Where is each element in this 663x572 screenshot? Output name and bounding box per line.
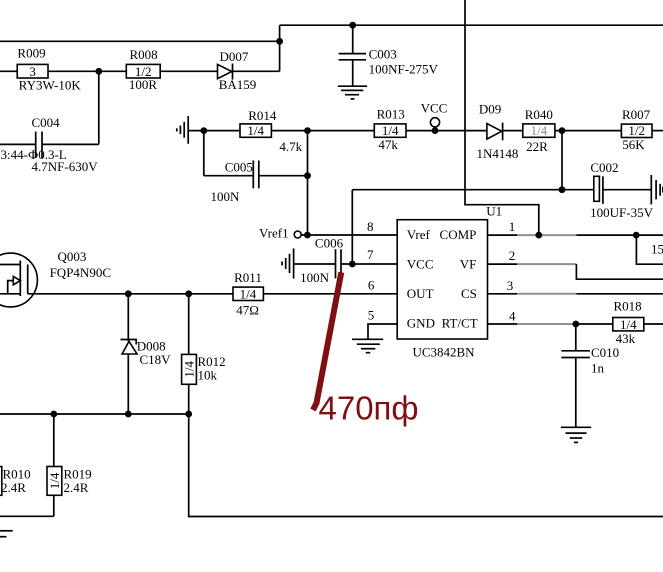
ground left of C006 (rotated) bbox=[282, 248, 294, 278]
svg-text:1n: 1n bbox=[591, 360, 605, 375]
power VCC bbox=[421, 100, 448, 127]
ground left of R014 (rotated) bbox=[177, 116, 188, 144]
node junction R014/C005 bbox=[200, 127, 207, 134]
svg-text:R014: R014 bbox=[248, 108, 277, 123]
svg-text:Vref: Vref bbox=[407, 227, 431, 242]
wire pin 3 CS bbox=[488, 293, 518, 295]
wire R014 to junction bbox=[271, 130, 374, 132]
node junction COMP feed bbox=[535, 232, 542, 239]
svg-text:GND: GND bbox=[407, 316, 435, 331]
capacitor C003 bbox=[339, 25, 439, 86]
svg-text:BA159: BA159 bbox=[219, 77, 257, 92]
node junction top rail bbox=[276, 38, 283, 45]
wire source/sense bottom row bbox=[0, 413, 189, 415]
svg-text:D007: D007 bbox=[220, 49, 249, 64]
svg-text:1/4: 1/4 bbox=[531, 123, 548, 138]
ground right of C002 (rotated) bbox=[651, 175, 663, 204]
resistor R009 bbox=[17, 46, 81, 93]
node junction VCC filter bbox=[559, 186, 566, 193]
component box 15 (cut at edge) bbox=[636, 235, 663, 264]
svg-text:R009: R009 bbox=[17, 46, 45, 61]
node junction C003 top bbox=[349, 22, 356, 29]
svg-text:1/4: 1/4 bbox=[620, 317, 637, 332]
svg-text:1/4: 1/4 bbox=[247, 123, 264, 138]
wire vertical from top rail to D007 cathode bbox=[279, 25, 281, 71]
svg-text:7: 7 bbox=[367, 247, 374, 262]
resistor R012 bbox=[182, 294, 226, 414]
zener diode D008 bbox=[121, 294, 172, 414]
svg-text:100N: 100N bbox=[300, 270, 330, 285]
svg-text:VCC: VCC bbox=[407, 257, 434, 272]
op-amp U1 UC3842BN IC body bbox=[397, 204, 502, 360]
svg-text:1/4: 1/4 bbox=[182, 361, 197, 378]
svg-text:2: 2 bbox=[509, 248, 516, 263]
node junction R012 bbox=[185, 290, 192, 297]
svg-text:8: 8 bbox=[367, 219, 374, 234]
svg-text:4.7k: 4.7k bbox=[279, 139, 302, 154]
svg-text:56K: 56K bbox=[622, 137, 645, 152]
svg-text:47Ω: 47Ω bbox=[236, 302, 259, 317]
node junction R040/C002 bbox=[559, 127, 566, 134]
wire R007 to edge bbox=[652, 130, 663, 132]
wire COMP feed vertical bbox=[465, 0, 539, 235]
svg-text:CS: CS bbox=[461, 286, 477, 301]
capacitor C006 bbox=[294, 235, 398, 285]
svg-text:5: 5 bbox=[368, 308, 375, 323]
transistor Q003 bbox=[0, 249, 111, 307]
svg-text:10k: 10k bbox=[198, 367, 218, 382]
resistor R018 bbox=[613, 299, 644, 347]
wire junction down to VCC filter row bbox=[561, 131, 563, 190]
svg-text:43k: 43k bbox=[616, 331, 636, 346]
resistor R011 bbox=[233, 270, 263, 318]
wire bottom return path bbox=[189, 414, 663, 517]
resistor R019 bbox=[47, 414, 92, 516]
svg-text:C002: C002 bbox=[590, 160, 618, 175]
wire pin 5 bbox=[368, 324, 397, 339]
node junction pin1 right bbox=[633, 232, 640, 239]
wire R008 to D007 bbox=[160, 70, 279, 72]
node junction C006/VCC pin7 bbox=[349, 261, 356, 268]
svg-text:R011: R011 bbox=[234, 270, 262, 285]
svg-text:3: 3 bbox=[29, 64, 36, 79]
svg-text:1/4: 1/4 bbox=[382, 123, 399, 138]
wire R009 row bbox=[0, 70, 126, 72]
svg-text:R018: R018 bbox=[614, 299, 642, 314]
svg-text:R040: R040 bbox=[525, 107, 553, 122]
node junction R014/R013/C005 bbox=[304, 127, 311, 134]
svg-text:C004: C004 bbox=[32, 115, 61, 130]
annotation red pointer line bbox=[313, 272, 341, 410]
node junction R019 bbox=[50, 411, 57, 418]
node junction D008 bottom bbox=[125, 411, 132, 418]
resistor R007 bbox=[621, 107, 652, 152]
svg-text:1N4148: 1N4148 bbox=[477, 146, 519, 161]
svg-text:Vref1: Vref1 bbox=[259, 226, 289, 241]
wire junction down to Vref1 row bbox=[307, 131, 309, 235]
svg-text:RY3W-10K: RY3W-10K bbox=[19, 78, 82, 93]
svg-text:VF: VF bbox=[460, 257, 477, 272]
svg-text:VCC: VCC bbox=[421, 100, 448, 115]
wire R040 to junction bbox=[555, 130, 622, 132]
resistor R008 bbox=[126, 47, 160, 92]
svg-text:R013: R013 bbox=[377, 107, 405, 122]
wire bottom left bbox=[0, 515, 54, 517]
wire pin 1 COMP bbox=[488, 234, 518, 236]
wire VCC filter row bbox=[352, 189, 594, 191]
wire gate row (pin 6) bbox=[28, 293, 398, 295]
svg-text:C010: C010 bbox=[591, 345, 619, 360]
diode D007 bbox=[218, 49, 257, 92]
svg-text:1: 1 bbox=[509, 219, 516, 234]
svg-text:15: 15 bbox=[651, 242, 663, 257]
wire R018 to edge bbox=[644, 323, 663, 325]
svg-text:4: 4 bbox=[509, 309, 516, 324]
node junction Vref1 bbox=[304, 232, 311, 239]
capacitor C004 bbox=[0, 115, 99, 174]
resistor R013 bbox=[374, 107, 406, 152]
wire ground to R014 bbox=[188, 130, 240, 132]
ground bottom left bbox=[0, 531, 13, 537]
ground below C003 bbox=[338, 86, 367, 99]
svg-text:2.4R: 2.4R bbox=[64, 480, 89, 495]
svg-text:3: 3 bbox=[507, 278, 514, 293]
wire D09 to R040 bbox=[503, 130, 523, 132]
node junction VCC bbox=[432, 127, 439, 134]
resistor R014 bbox=[240, 108, 303, 154]
svg-text:100N: 100N bbox=[210, 189, 240, 204]
svg-text:C18V: C18V bbox=[139, 352, 171, 367]
node junction C010 bbox=[572, 321, 579, 328]
wire R013 to D09 bbox=[406, 130, 487, 132]
svg-text:UC3842BN: UC3842BN bbox=[412, 344, 475, 359]
capacitor C010 bbox=[561, 324, 619, 427]
ground below C010 bbox=[561, 427, 591, 442]
wire pin 4 RT/CT bbox=[488, 323, 518, 325]
wire top rail left bbox=[0, 40, 280, 42]
svg-text:D09: D09 bbox=[479, 101, 501, 116]
diode D09 bbox=[477, 101, 519, 161]
svg-text:FQP4N90C: FQP4N90C bbox=[50, 265, 111, 280]
wire junction to C004 bbox=[98, 71, 100, 144]
svg-text:OUT: OUT bbox=[407, 286, 434, 301]
svg-text:47k: 47k bbox=[378, 137, 398, 152]
node junction D008 bbox=[125, 290, 132, 297]
node junction R012 bottom bbox=[185, 411, 192, 418]
svg-text:470пф: 470пф bbox=[319, 390, 419, 427]
node Vref1 bbox=[259, 226, 301, 241]
svg-text:R008: R008 bbox=[130, 47, 158, 62]
svg-text:22R: 22R bbox=[526, 139, 548, 154]
svg-text:C006: C006 bbox=[315, 235, 344, 250]
wire pin 2 VF bbox=[488, 263, 518, 265]
svg-text:RT/CT: RT/CT bbox=[442, 316, 478, 331]
svg-text:100UF-35V: 100UF-35V bbox=[590, 205, 653, 220]
wire VCC filter down to pin7 bbox=[351, 190, 353, 264]
svg-text:6: 6 bbox=[368, 278, 375, 293]
ground pin 5 bbox=[352, 339, 383, 352]
resistor R010 bbox=[0, 466, 31, 495]
svg-text:2.4R: 2.4R bbox=[1, 480, 26, 495]
svg-text:1/4: 1/4 bbox=[47, 472, 62, 489]
node junction R009/R008/C004 bbox=[95, 68, 102, 75]
capacitor C002 bbox=[590, 160, 653, 220]
svg-text:Q003: Q003 bbox=[58, 249, 87, 264]
svg-text:C003: C003 bbox=[369, 46, 397, 61]
svg-text:100R: 100R bbox=[129, 77, 158, 92]
resistor R040 bbox=[523, 107, 555, 154]
svg-text:4.7NF-630V: 4.7NF-630V bbox=[32, 159, 99, 174]
wire top rail right bbox=[280, 24, 663, 26]
svg-text:R007: R007 bbox=[622, 107, 651, 122]
svg-text:1/2: 1/2 bbox=[628, 123, 645, 138]
wire Vref1 to pin 8 bbox=[301, 234, 397, 236]
svg-text:COMP: COMP bbox=[440, 227, 477, 242]
svg-text:100NF-275V: 100NF-275V bbox=[369, 62, 439, 77]
svg-text:1/4: 1/4 bbox=[240, 286, 257, 301]
capacitor C005 bbox=[204, 131, 308, 204]
svg-text:C005: C005 bbox=[225, 160, 253, 175]
node junction C005 right bbox=[304, 172, 311, 179]
svg-text:U1: U1 bbox=[486, 204, 502, 219]
